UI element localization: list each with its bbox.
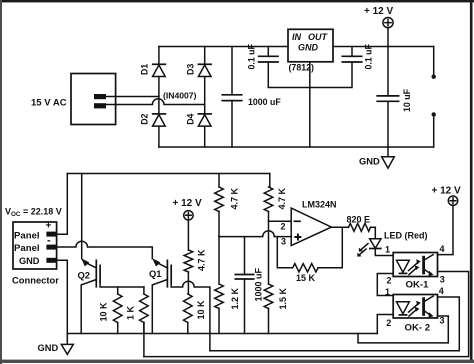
node +12V right	[432, 186, 462, 255]
svg-text:4.7 K: 4.7 K	[277, 187, 287, 209]
svg-text:+ 12 V: + 12 V	[173, 198, 203, 209]
svg-text:D3: D3	[185, 64, 195, 75]
svg-text:15 V AC: 15 V AC	[31, 98, 67, 109]
resistor 10K Q2	[99, 287, 122, 334]
svg-text:+ 12 V: + 12 V	[364, 6, 394, 17]
diode D1	[140, 64, 166, 77]
svg-text:D4: D4	[185, 113, 195, 124]
wire AC lower with hop	[106, 99, 205, 105]
svg-text:GND: GND	[359, 157, 380, 167]
optocoupler OK-2	[386, 286, 444, 333]
resistor 10K bias	[184, 294, 207, 334]
svg-text:2: 2	[386, 318, 391, 328]
svg-text:Panel: Panel	[14, 231, 40, 242]
svg-text:IN: IN	[292, 32, 302, 42]
svg-text:-: -	[47, 235, 51, 247]
svg-text:10 K: 10 K	[196, 300, 206, 320]
wire 1K bottom crossing rail	[143, 323, 145, 357]
svg-text:OK-1: OK-1	[406, 279, 430, 290]
svg-text:0.1 uF: 0.1 uF	[364, 43, 374, 69]
svg-text:(IN4007): (IN4007)	[163, 90, 197, 100]
capacitor 0.1 uF right	[310, 43, 374, 87]
svg-text:GND: GND	[38, 343, 59, 353]
svg-text:1 K: 1 K	[125, 305, 135, 320]
resistor 4.7K bias	[184, 249, 206, 294]
wire bridge left rail	[158, 47, 160, 148]
svg-text:+: +	[46, 221, 52, 232]
svg-text:1.5 K: 1.5 K	[278, 287, 288, 309]
transistor Q1	[149, 258, 171, 333]
svg-text:Q1: Q1	[149, 268, 162, 279]
wire OK2 pin3 to ground jog	[358, 316, 448, 343]
diode D3	[185, 64, 211, 77]
node +12V mid	[173, 198, 203, 250]
svg-text:1000 uF: 1000 uF	[254, 267, 264, 301]
wire right terminal lower with dot	[432, 112, 436, 147]
wire top rail	[159, 46, 288, 48]
svg-text:1: 1	[385, 287, 390, 297]
capacitor 1000 uF lower	[235, 237, 263, 334]
capacitor 1000 uF top	[222, 47, 281, 148]
resistor 820 E	[347, 215, 376, 232]
regulator U1 7812	[288, 29, 333, 72]
ground top section	[359, 147, 394, 168]
svg-text:4: 4	[440, 244, 445, 254]
svg-text:LED (Red): LED (Red)	[384, 230, 428, 240]
svg-text:2: 2	[387, 275, 392, 285]
svg-text:Q2: Q2	[78, 270, 91, 281]
capacitor 0.1 uF left	[247, 43, 310, 87]
wire OK1 pin2 to OK2 pin1	[377, 274, 393, 296]
svg-text:4.7 K: 4.7 K	[197, 249, 207, 271]
svg-text:10 uF: 10 uF	[402, 88, 412, 112]
wire OK2 pin4 to Q1 base	[210, 297, 459, 351]
wire op-amp plus input	[219, 231, 291, 237]
svg-text:1.2 K: 1.2 K	[230, 287, 240, 309]
svg-text:3: 3	[440, 274, 445, 284]
wire bridge right rail	[204, 47, 206, 148]
wire minus junction down	[268, 221, 270, 284]
transistor Q2	[78, 258, 101, 333]
connector J1	[12, 221, 59, 286]
wire OK2 pin2 to ground rail	[377, 315, 393, 334]
wire panel minus to Q1 emitter with hop	[57, 241, 153, 259]
svg-text:LM324N: LM324N	[302, 200, 337, 210]
svg-text:820 E: 820 E	[347, 215, 371, 225]
svg-text:OUT: OUT	[308, 32, 329, 42]
wire ground rail	[67, 333, 377, 335]
op-amp U2 LM324N	[281, 200, 337, 247]
wire 7812 GND pin	[309, 62, 311, 147]
wire op-amp output	[331, 226, 348, 228]
svg-text:3: 3	[281, 236, 286, 246]
svg-text:15 K: 15 K	[296, 273, 316, 283]
svg-text:1: 1	[385, 245, 390, 255]
svg-text:D1: D1	[140, 64, 150, 75]
svg-text:1000 uF: 1000 uF	[248, 97, 281, 107]
diode D2	[140, 113, 166, 126]
diode D4	[185, 113, 211, 126]
svg-text:GND: GND	[19, 256, 40, 266]
wire panel plus to rail	[57, 174, 68, 235]
svg-text:Connector: Connector	[12, 275, 59, 286]
svg-text:4: 4	[439, 286, 444, 296]
resistor 4.7K input2	[264, 174, 287, 222]
svg-text:OK- 2: OK- 2	[405, 322, 431, 333]
svg-text:+ 12 V: + 12 V	[432, 186, 462, 197]
wire AC upper	[106, 96, 159, 98]
resistor 4.7K input1	[215, 174, 240, 237]
optocoupler OK-1	[387, 244, 445, 290]
resistor 1.2K	[215, 237, 240, 334]
svg-text:D2: D2	[140, 113, 150, 124]
wire bottom rail top section	[159, 146, 434, 148]
svg-text:10 K: 10 K	[99, 302, 109, 322]
ground bottom left	[38, 334, 74, 355]
LED red	[357, 227, 427, 256]
AC source 15 V AC	[31, 74, 116, 125]
wire regulator output	[333, 46, 434, 48]
wire Q2 base	[100, 282, 144, 287]
svg-text:4.7 K: 4.7 K	[230, 187, 240, 209]
resistor 1K	[125, 287, 148, 334]
wire rail to Q2 emitter	[81, 174, 83, 259]
wire rail A	[67, 173, 269, 175]
resistor 1.5K	[264, 284, 288, 334]
svg-text:Panel: Panel	[14, 243, 40, 254]
wire op-amp minus input	[269, 220, 292, 222]
wire Q1 base with hop	[171, 281, 210, 351]
resistor 15K feedback	[277, 227, 342, 283]
node +12V top	[364, 6, 394, 46]
wire right terminal upper with dot	[432, 47, 436, 79]
capacitor 10 uF	[377, 47, 412, 148]
svg-text:3: 3	[440, 316, 445, 326]
svg-text:2: 2	[281, 221, 286, 231]
wire OK1 pin3 to bottom	[144, 272, 469, 357]
svg-text:0.1 uF: 0.1 uF	[247, 43, 257, 69]
svg-text:GND: GND	[298, 43, 319, 53]
wire panel gnd down	[57, 260, 68, 333]
